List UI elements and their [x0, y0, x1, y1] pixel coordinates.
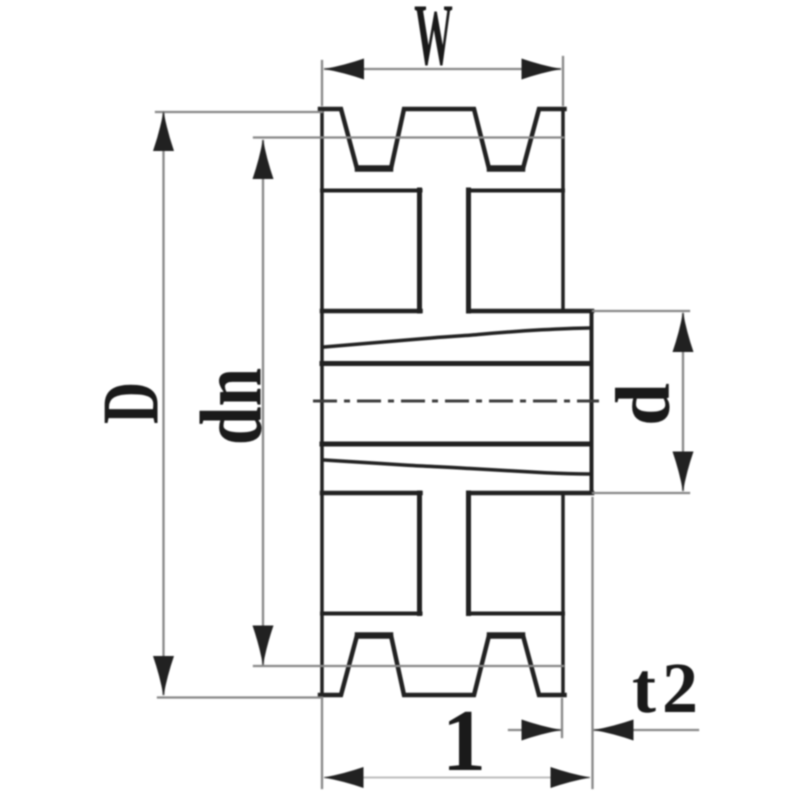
svg-text:1: 1 [442, 693, 486, 790]
svg-text:t2: t2 [632, 648, 704, 728]
svg-text:dn: dn [183, 368, 281, 445]
svg-text:d: d [600, 383, 686, 426]
svg-text:W: W [414, 0, 453, 83]
svg-text:D: D [86, 382, 176, 424]
